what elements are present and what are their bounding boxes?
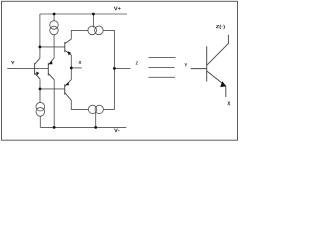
transistor Q3 (NPN, output top) (65, 39, 72, 55)
node line: to Q4 base (40, 88, 65, 90)
wire: Q1 base to Q2 base (35, 68, 49, 70)
wire: Q3 emitter down to X node (70, 55, 72, 80)
wire: CM2 bottom to V- rail (95, 112, 97, 128)
V- rail (40, 126, 126, 128)
wire: CM2 right to Z column (103, 68, 114, 109)
wire: CM1 right to Z column (103, 30, 114, 68)
wire: Q4 collector down to CM2 left (71, 100, 88, 109)
wire: CS1 bottom to Q2 emitter (53, 35, 55, 58)
wire: rail corner down to Q1 collector (39, 14, 41, 58)
current mirror CM2 (circle pair) (88, 105, 103, 113)
border frame (2, 1, 238, 140)
labels (outlined text) (114, 7, 121, 11)
V+ rail (40, 13, 127, 15)
transistor Q2 (PNP, base at Y) (48, 58, 54, 80)
wire: Q2 collector down to V- rail (53, 80, 55, 128)
current source CS1 (circle pair) (50, 21, 59, 35)
transistor Q4 (PNP, output bottom) (65, 80, 72, 101)
wire: CM1 left to Q3 collector column (71, 30, 88, 39)
X stub (71, 67, 81, 69)
current source CS2 (circle pair) (36, 102, 45, 116)
wire: CS2 bottom to V- rail (39, 116, 41, 127)
Y input wire (7, 68, 34, 70)
emitter to X (207, 71, 226, 97)
Z stub (114, 67, 130, 69)
junction dots (53, 13, 56, 16)
wire: rail to CS1 top (53, 14, 55, 21)
wire: rail to mirror CM1 (92, 14, 94, 28)
wire: Q1 emitter down to CS2, with base branch of Q4 (39, 79, 41, 102)
current mirror CM1 (circle pair) (88, 26, 103, 35)
node line: to Q3 base (40, 46, 65, 48)
base bar (206, 46, 208, 81)
equivalence sign (149, 58, 176, 78)
Y lead (191, 68, 207, 70)
collector to Z (207, 35, 229, 66)
diamond transistor symbol (191, 35, 229, 97)
transistor Q1 (NPN, base at Y) (35, 58, 40, 79)
